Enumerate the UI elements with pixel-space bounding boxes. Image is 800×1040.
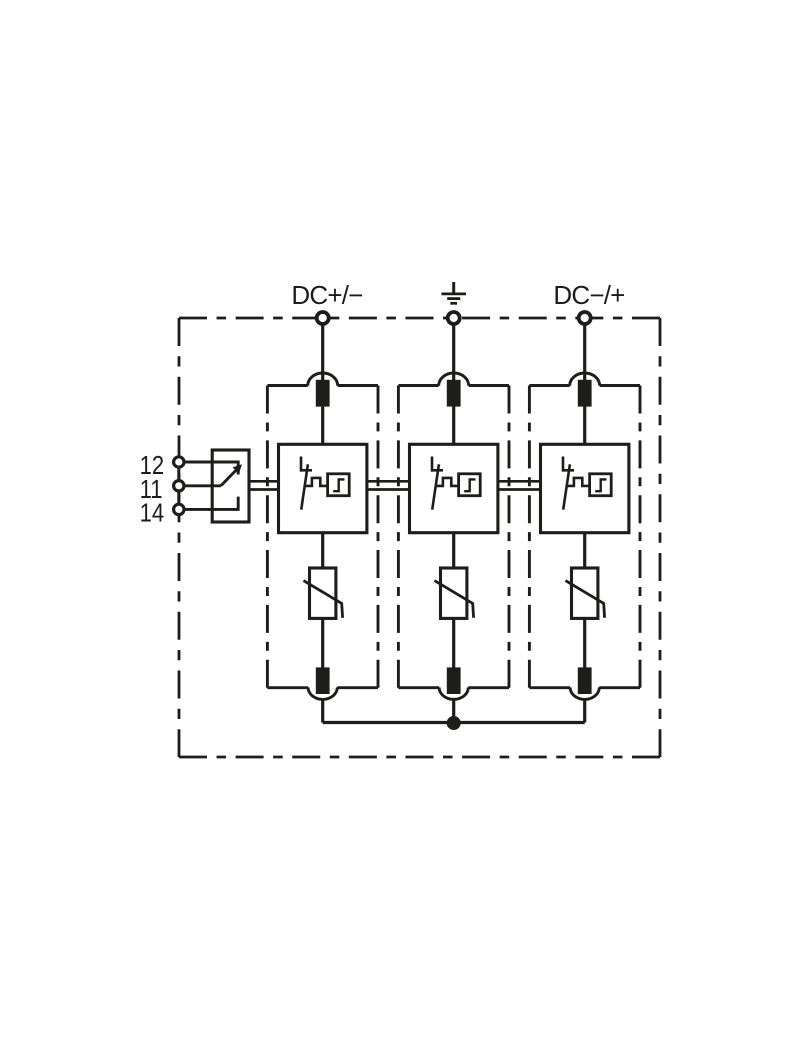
- wire: bottom plug contact to common bus (module 3): [583, 698, 586, 723]
- varistor body (module 2): [441, 568, 467, 618]
- varistor diagonal strike (module 1): [304, 581, 343, 618]
- wire: disconnector box to varistor (module 3): [583, 532, 586, 569]
- module 1 boundary left (dash-dot): [266, 386, 269, 688]
- changeover moving arm with arrow: [221, 464, 242, 486]
- thermal disconnector box (module 2): [410, 444, 498, 532]
- module 3 boundary bottom-right segment: [599, 686, 640, 689]
- trip linkage step line (module 2): [435, 478, 459, 486]
- trip linkage step line (module 3): [566, 478, 590, 486]
- module 3 boundary left (dash-dot): [528, 386, 531, 688]
- module 1 boundary right (dash-dot): [377, 386, 380, 688]
- wire: bottom plug contact to common bus (module 1): [321, 698, 324, 723]
- module 2 boundary bottom-right segment: [468, 686, 509, 689]
- disconnector fixed-contact lead (module 3): [562, 457, 565, 472]
- wire: disconnector box to varistor (module 1): [321, 532, 324, 569]
- wire: terminal 12 to NC contact: [184, 462, 238, 475]
- disconnector moving arm (module 1): [301, 464, 308, 509]
- module 3 boundary top plug arc: [570, 373, 600, 386]
- plug-in contact pin top (module 3): [578, 380, 592, 407]
- mechanical link (double line) relay to module 1: [249, 481, 279, 489]
- module 2 boundary left (dash-dot): [397, 386, 400, 688]
- wire: terminal to top plug contact (module 3): [583, 324, 586, 382]
- mechanical link (double line) module 2 to module 3: [498, 481, 540, 489]
- common bus wire at module bottoms: [323, 721, 585, 724]
- disconnector fixed-contact lead (module 2): [431, 457, 434, 472]
- varistor diagonal strike (module 2): [435, 581, 474, 618]
- svg-text:14: 14: [140, 497, 165, 527]
- varistor body (module 3): [572, 568, 598, 618]
- module 1 boundary top-right segment: [338, 384, 378, 387]
- module 1 boundary top plug arc: [308, 373, 338, 386]
- varistor body (module 1): [310, 568, 336, 618]
- module 1 boundary top-left segment: [267, 384, 307, 387]
- module 1 boundary bottom-right segment: [337, 686, 378, 689]
- module 3 boundary top-right segment: [600, 384, 640, 387]
- trip linkage step line (module 1): [304, 478, 328, 486]
- thermal trip element box (module 3): [590, 474, 612, 496]
- svg-text:DC−/+: DC−/+: [553, 280, 624, 310]
- module 1 boundary bottom plug arc: [308, 687, 337, 699]
- disconnector moving arm (module 2): [432, 464, 439, 509]
- module 2 boundary right (dash-dot): [508, 386, 511, 688]
- disconnector contact bar (module 3): [562, 469, 574, 472]
- wire: bottom plug contact to common bus (module 2): [452, 698, 455, 723]
- svg-text:DC+/−: DC+/−: [291, 280, 362, 310]
- wire: varistor to bottom plug contact (module 2): [452, 617, 455, 669]
- wire: varistor to bottom plug contact (module 3): [583, 617, 586, 669]
- plug-in contact pin bottom (module 3): [578, 667, 592, 694]
- wire: terminal 11 to common contact: [184, 484, 221, 487]
- module 3 boundary top-left segment: [529, 384, 569, 387]
- trip element step symbol (module 1): [333, 479, 344, 491]
- ground symbol (earth): [441, 282, 466, 303]
- module 2 boundary top plug arc: [439, 373, 469, 386]
- terminal 11: [174, 481, 184, 491]
- varistor diagonal strike (module 3): [566, 581, 605, 618]
- wire joining terminals 12-11-14: [177, 460, 180, 511]
- wire: top plug contact to disconnector box (module 2): [452, 405, 455, 445]
- wire: varistor to bottom plug contact (module 1): [321, 617, 324, 669]
- disconnector contact bar (module 1): [300, 469, 312, 472]
- module 2 boundary top-left segment: [398, 384, 438, 387]
- thermal trip element box (module 1): [328, 474, 350, 496]
- thermal trip element box (module 2): [459, 474, 481, 496]
- trip element step symbol (module 2): [464, 479, 475, 491]
- junction node (bus / middle module): [447, 716, 461, 730]
- wire: terminal to top plug contact (module 1): [321, 324, 324, 382]
- terminal ground: [448, 312, 460, 324]
- wire: top plug contact to disconnector box (module 3): [583, 405, 586, 445]
- plug-in contact pin bottom (module 1): [316, 667, 330, 694]
- disconnector fixed-contact lead (module 1): [300, 457, 303, 472]
- trip element step symbol (module 3): [595, 479, 606, 491]
- plug-in contact pin top (module 2): [447, 380, 461, 407]
- changeover contact box (remote signalling): [212, 450, 249, 522]
- module 2 boundary top-right segment: [469, 384, 509, 387]
- terminal DC+/-: [317, 312, 329, 324]
- terminal DC-/+: [579, 312, 591, 324]
- thermal disconnector box (module 1): [279, 444, 367, 532]
- wire: disconnector box to varistor (module 2): [452, 532, 455, 569]
- terminal 14: [174, 504, 184, 514]
- module 2 boundary bottom-left segment: [398, 686, 439, 689]
- disconnector contact bar (module 2): [431, 469, 443, 472]
- wire: terminal to top plug contact (module 2): [452, 324, 455, 382]
- disconnector moving arm (module 3): [563, 464, 570, 509]
- module 3 boundary right (dash-dot): [639, 386, 642, 688]
- mechanical link (double line) module 1 to module 2: [367, 481, 409, 489]
- plug-in contact pin top (module 1): [316, 380, 330, 407]
- plug-in contact pin bottom (module 2): [447, 667, 461, 694]
- module 2 boundary bottom plug arc: [439, 687, 468, 699]
- device enclosure border (dash-dot): [179, 318, 660, 757]
- terminal 12: [174, 457, 184, 467]
- wire: top plug contact to disconnector box (module 1): [321, 405, 324, 445]
- thermal disconnector box (module 3): [541, 444, 629, 532]
- module 3 boundary bottom plug arc: [570, 687, 599, 699]
- module 3 boundary bottom-left segment: [529, 686, 570, 689]
- module 1 boundary bottom-left segment: [267, 686, 308, 689]
- wire: terminal 14 to NO contact: [184, 497, 238, 510]
